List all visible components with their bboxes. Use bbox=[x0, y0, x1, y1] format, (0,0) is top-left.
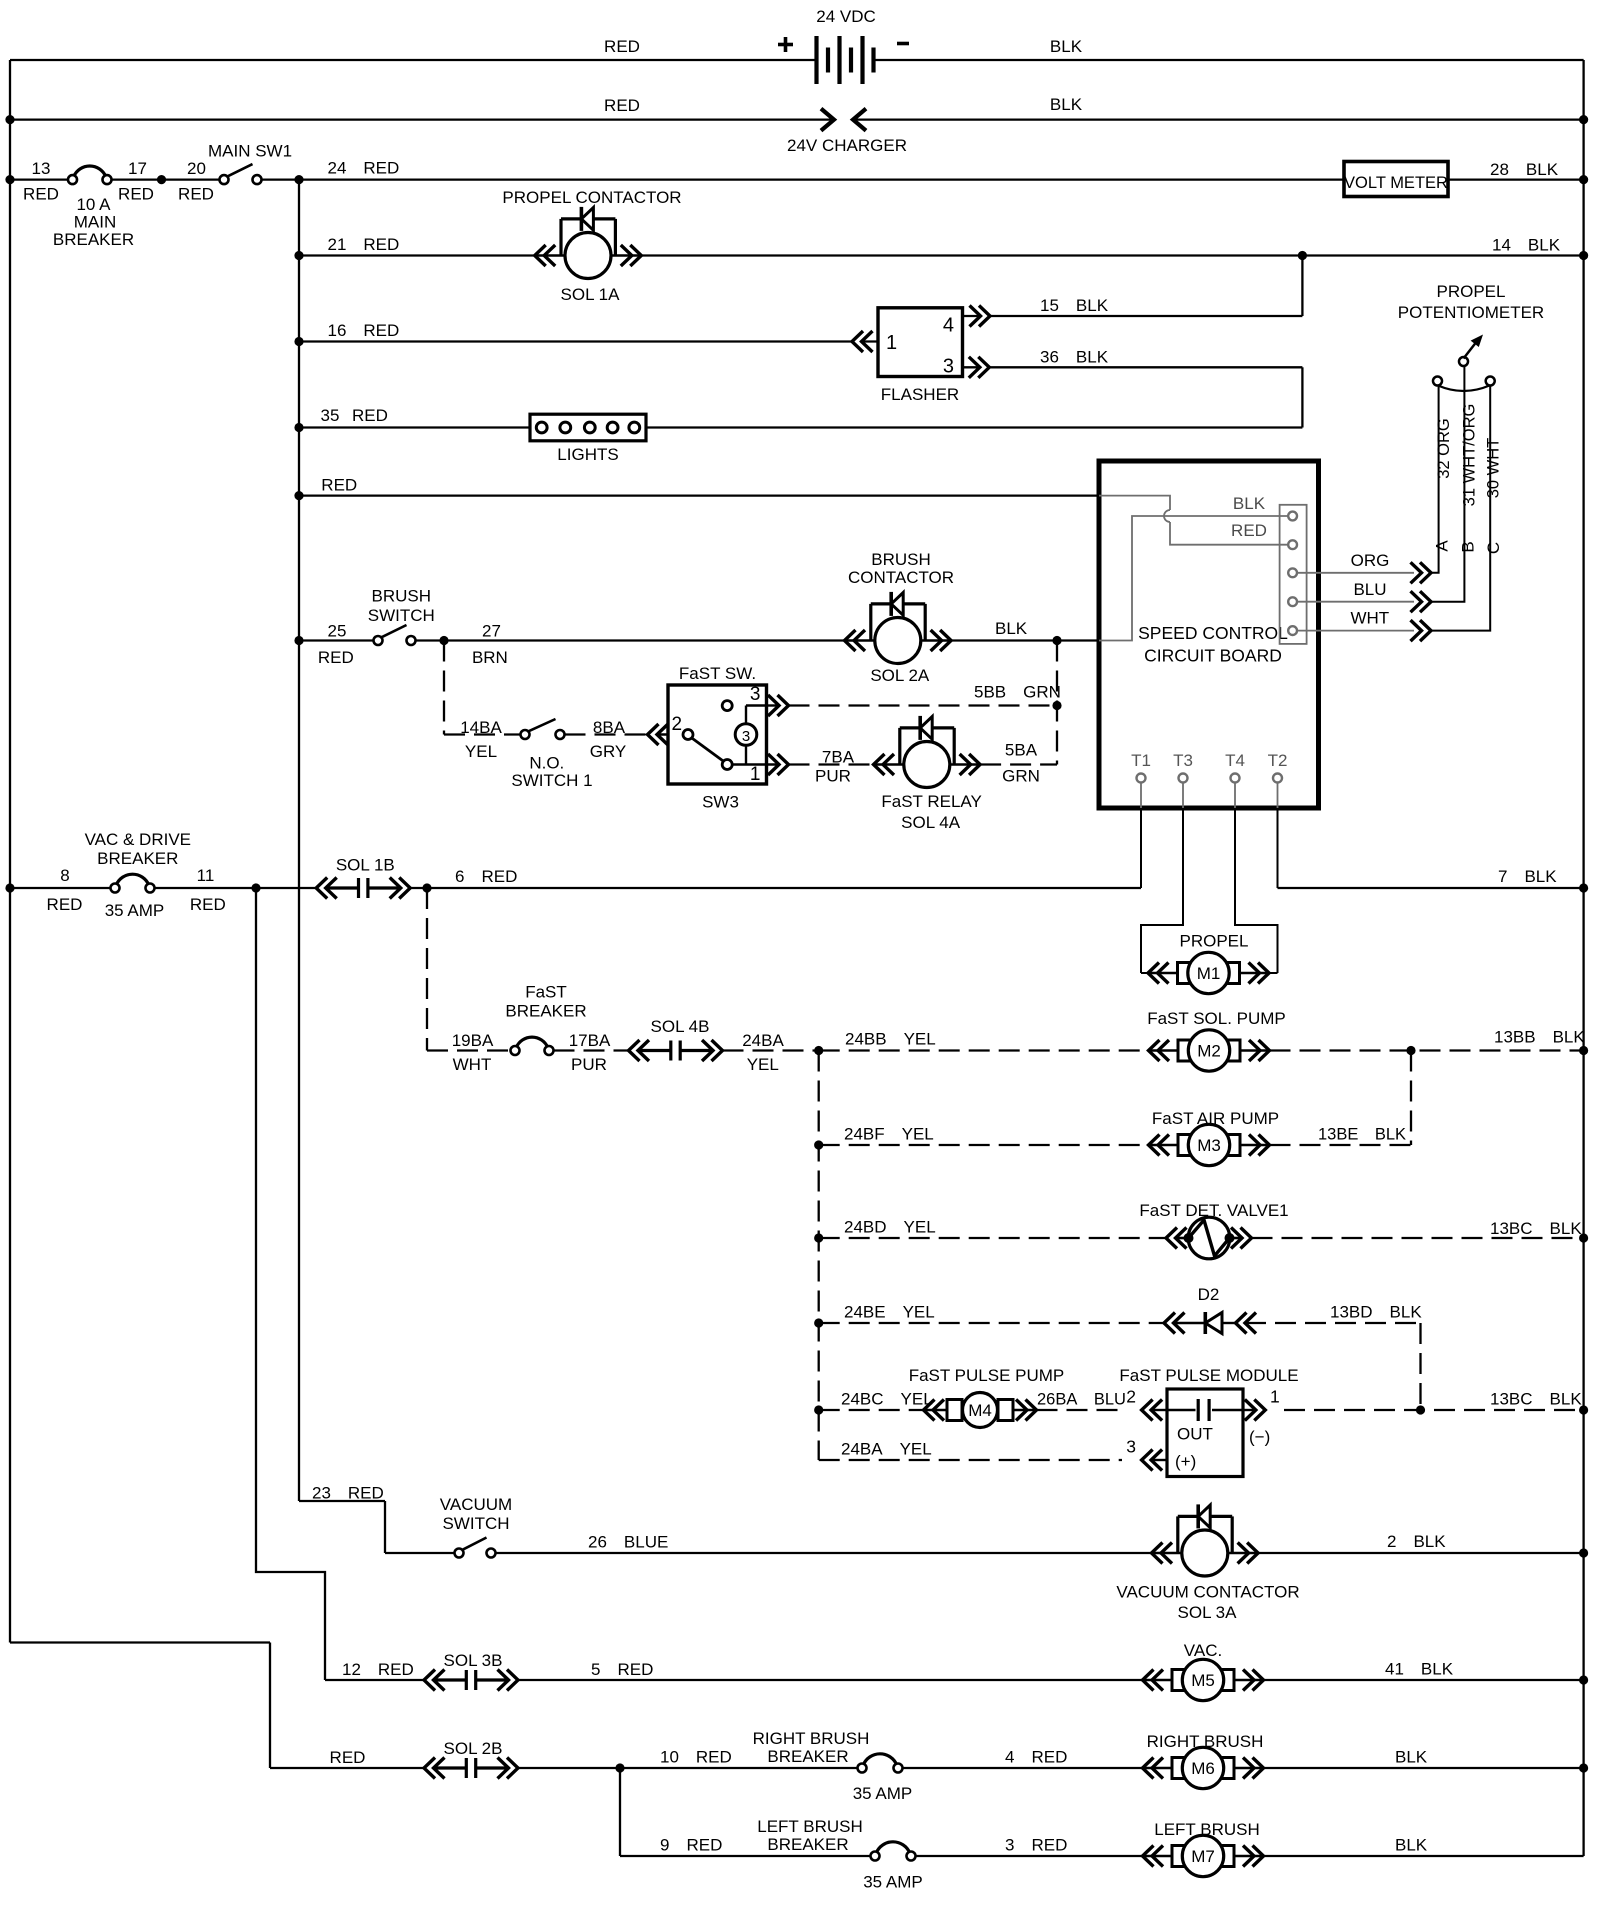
junction wire 17/20 bbox=[157, 175, 166, 184]
svg-text:2: 2 bbox=[672, 714, 683, 735]
bus wire vac drive vertical bbox=[256, 888, 325, 1680]
svg-text:35 AMP: 35 AMP bbox=[105, 901, 165, 920]
wire 15 BLK bbox=[990, 315, 1302, 317]
svg-text:BREAKER: BREAKER bbox=[767, 1835, 848, 1854]
svg-text:RED: RED bbox=[352, 406, 388, 425]
svg-text:24BA: 24BA bbox=[742, 1031, 784, 1050]
svg-text:16 RED: 16 RED bbox=[328, 321, 400, 340]
svg-text:FaST PULSE PUMP: FaST PULSE PUMP bbox=[909, 1366, 1065, 1385]
junction 24B bus bbox=[814, 1046, 823, 1055]
wire T1 drop bbox=[1140, 808, 1142, 888]
svg-text:3 RED: 3 RED bbox=[1005, 1836, 1067, 1855]
board internal BLK wire bbox=[1099, 516, 1288, 641]
contactor FaST relay SOL 4A bbox=[874, 763, 904, 766]
svg-text:26 BLUE: 26 BLUE bbox=[588, 1533, 668, 1552]
wire 21 RED bbox=[299, 254, 535, 256]
wire 14 BLK bbox=[641, 254, 1583, 256]
wire RED battery positive top bbox=[10, 59, 817, 61]
wire 24BA YEL module pin 3 bbox=[819, 1459, 1122, 1461]
FaST SW position-3 contact bbox=[722, 701, 732, 711]
svg-text:OUT: OUT bbox=[1177, 1425, 1213, 1444]
wire 24BF YEL bbox=[819, 1144, 1149, 1146]
lights bar bbox=[530, 414, 646, 441]
svg-text:RIGHT BRUSH: RIGHT BRUSH bbox=[1147, 1732, 1264, 1751]
svg-text:24 RED: 24 RED bbox=[328, 159, 400, 178]
svg-text:19BA: 19BA bbox=[452, 1031, 494, 1050]
wire BLK brush contactor return bbox=[951, 639, 1099, 641]
svg-text:15 BLK: 15 BLK bbox=[1040, 296, 1109, 315]
svg-text:M1: M1 bbox=[1197, 964, 1221, 983]
svg-text:YEL: YEL bbox=[465, 742, 497, 761]
contactor vacuum contactor SOL 3A bbox=[1152, 1552, 1182, 1555]
connector BLU bbox=[1420, 591, 1431, 612]
diode D2 bbox=[1164, 1313, 1175, 1334]
svg-text:30 WHT: 30 WHT bbox=[1485, 438, 1503, 499]
flasher pin 3 connector bbox=[963, 366, 981, 368]
svg-text:23 RED: 23 RED bbox=[312, 1484, 384, 1503]
svg-text:3: 3 bbox=[742, 728, 750, 745]
svg-text:24BB YEL: 24BB YEL bbox=[845, 1030, 936, 1049]
wire pot A 32 ORG bbox=[1431, 385, 1439, 573]
wire 26BA BLU bbox=[1037, 1409, 1123, 1411]
wire 35 RED bbox=[299, 426, 530, 428]
svg-text:28 BLK: 28 BLK bbox=[1490, 160, 1559, 179]
svg-text:2 BLK: 2 BLK bbox=[1387, 1532, 1446, 1551]
svg-text:BREAKER: BREAKER bbox=[505, 1002, 586, 1021]
svg-text:PROPEL: PROPEL bbox=[1437, 282, 1506, 301]
svg-text:RED: RED bbox=[604, 37, 640, 56]
contactor brush contactor SOL 2A bbox=[845, 639, 875, 642]
FaST SW pin 2 contact bbox=[683, 730, 693, 740]
board pin T2 bbox=[1273, 774, 1282, 783]
switch N.O. SWITCH 1 bbox=[528, 719, 555, 731]
wire 2 BLK bbox=[1258, 1552, 1584, 1554]
svg-text:T1: T1 bbox=[1131, 751, 1151, 770]
motor M6 right brush bbox=[1143, 1767, 1173, 1770]
switch MAIN SW1 bbox=[227, 164, 252, 176]
svg-text:VACUUM: VACUUM bbox=[440, 1495, 512, 1514]
board connector strip bbox=[1280, 505, 1307, 644]
breaker left brush breaker 35 AMP bbox=[876, 1842, 910, 1853]
wire 13BD drop bbox=[1419, 1323, 1421, 1410]
junction 27 BRN / 14BA bbox=[439, 636, 448, 645]
junction right rail 41 BLK bbox=[1579, 1675, 1588, 1684]
svg-text:WHT: WHT bbox=[1350, 609, 1389, 628]
junction right rail 2 BLK bbox=[1579, 1548, 1588, 1557]
svg-text:CIRCUIT BOARD: CIRCUIT BOARD bbox=[1144, 646, 1282, 666]
connector WHT bbox=[1420, 620, 1431, 641]
wire 5BA GRN bbox=[980, 763, 1057, 765]
svg-text:3: 3 bbox=[943, 356, 954, 378]
svg-text:FaST SW.: FaST SW. bbox=[679, 664, 756, 683]
svg-text:RED: RED bbox=[190, 895, 226, 914]
svg-text:C: C bbox=[1484, 542, 1503, 554]
svg-text:5BB GRN: 5BB GRN bbox=[974, 683, 1061, 702]
svg-text:VAC.: VAC. bbox=[1184, 1641, 1222, 1660]
junction 5BB GRN bbox=[1052, 701, 1061, 710]
svg-text:YEL: YEL bbox=[747, 1055, 779, 1074]
wire 36 BLK drop to lights return bbox=[1301, 367, 1303, 427]
svg-text:BRUSH: BRUSH bbox=[871, 550, 931, 569]
breaker FaST breaker bbox=[516, 1037, 548, 1047]
solenoid valve FaST det. valve1 bbox=[1166, 1228, 1177, 1249]
svg-text:8: 8 bbox=[60, 866, 69, 885]
svg-text:41 BLK: 41 BLK bbox=[1385, 1660, 1454, 1679]
flasher connector pin 1 bbox=[852, 331, 863, 352]
junction right rail 13BC bbox=[1579, 1233, 1588, 1242]
FaST SW pin 1 contact bbox=[722, 760, 732, 770]
svg-text:14 BLK: 14 BLK bbox=[1492, 236, 1561, 255]
module pin 1 connector bbox=[1243, 1409, 1256, 1411]
svg-text:GRY: GRY bbox=[590, 742, 627, 761]
contact SOL 1B bbox=[316, 878, 327, 899]
board WHT wire bbox=[1297, 630, 1414, 632]
wire 14BA YEL bbox=[444, 733, 521, 735]
junction right rail M6 bbox=[1579, 1763, 1588, 1772]
connector ORG bbox=[1420, 562, 1431, 583]
svg-text:FaST AIR PUMP: FaST AIR PUMP bbox=[1152, 1109, 1279, 1128]
motor M5 vacuum bbox=[1143, 1679, 1173, 1682]
wire 27 BRN bbox=[416, 639, 845, 641]
motor M4 FaST pulse pump bbox=[924, 1409, 948, 1412]
wire BLK charger line bbox=[854, 118, 1584, 120]
svg-text:1: 1 bbox=[886, 332, 897, 354]
contact SOL 2B bbox=[424, 1758, 435, 1779]
svg-text:SOL 3B: SOL 3B bbox=[444, 1651, 503, 1670]
wire 7BA PUR bbox=[789, 763, 874, 765]
wire 10 RED bbox=[518, 1767, 858, 1769]
wire 19BA WHT drop bbox=[426, 888, 428, 1051]
svg-text:SOL 1A: SOL 1A bbox=[561, 285, 621, 304]
breaker vac and drive breaker 35 AMP bbox=[116, 874, 149, 885]
wire 24BE YEL bbox=[819, 1322, 1164, 1324]
svg-text:(+): (+) bbox=[1175, 1452, 1196, 1471]
svg-text:T2: T2 bbox=[1268, 751, 1288, 770]
svg-text:7 BLK: 7 BLK bbox=[1498, 867, 1557, 886]
svg-text:SOL 3A: SOL 3A bbox=[1178, 1603, 1238, 1622]
board ORG wire bbox=[1297, 572, 1414, 574]
svg-text:FaST RELAY: FaST RELAY bbox=[881, 792, 981, 811]
svg-text:POTENTIOMETER: POTENTIOMETER bbox=[1398, 303, 1544, 322]
wire 24BC YEL bbox=[819, 1409, 924, 1411]
wire 24BD YEL bbox=[819, 1237, 1166, 1239]
board pin T1 bbox=[1137, 774, 1146, 783]
wire 12 RED bbox=[325, 1679, 424, 1681]
wire RED brush feed bbox=[270, 1767, 424, 1769]
svg-text:M7: M7 bbox=[1191, 1847, 1215, 1866]
board pin T3 bbox=[1179, 774, 1188, 783]
svg-text:24BD YEL: 24BD YEL bbox=[844, 1218, 936, 1237]
svg-text:32 ORG: 32 ORG bbox=[1435, 418, 1453, 479]
svg-text:A: A bbox=[1433, 540, 1452, 552]
svg-text:SW3: SW3 bbox=[702, 793, 739, 812]
junction right rail 13BC module bbox=[1579, 1405, 1588, 1414]
svg-text:BRN: BRN bbox=[472, 648, 508, 667]
wire 13BD BLK bbox=[1245, 1322, 1421, 1324]
wire 24BB YEL bbox=[819, 1049, 1149, 1051]
svg-text:24BC YEL: 24BC YEL bbox=[841, 1390, 933, 1409]
board BLU wire bbox=[1297, 601, 1414, 603]
FaST SW pin 1 exit bbox=[732, 763, 779, 765]
junction node bus A top bbox=[294, 175, 303, 184]
svg-text:FaST: FaST bbox=[525, 983, 567, 1002]
battery plus terminal label bbox=[778, 43, 793, 47]
FaST switch connector pin 2 bbox=[648, 724, 659, 745]
svg-text:4 RED: 4 RED bbox=[1005, 1748, 1067, 1767]
svg-text:BRUSH: BRUSH bbox=[372, 587, 432, 606]
svg-text:M3: M3 bbox=[1197, 1136, 1221, 1155]
svg-text:13: 13 bbox=[32, 159, 51, 178]
svg-text:RED: RED bbox=[318, 648, 354, 667]
svg-text:MAIN SW1: MAIN SW1 bbox=[208, 142, 292, 161]
svg-text:BLK: BLK bbox=[1395, 1748, 1428, 1767]
svg-text:21 RED: 21 RED bbox=[328, 235, 400, 254]
svg-text:13BC BLK: 13BC BLK bbox=[1490, 1219, 1582, 1238]
right power rail BLK bbox=[1582, 60, 1584, 1856]
svg-text:1: 1 bbox=[750, 764, 761, 785]
svg-text:RED: RED bbox=[23, 185, 59, 204]
wire 36 BLK bbox=[989, 366, 1302, 368]
svg-text:LEFT BRUSH: LEFT BRUSH bbox=[1154, 1820, 1260, 1839]
svg-text:FaST DET. VALVE1: FaST DET. VALVE1 bbox=[1139, 1201, 1288, 1220]
svg-text:13BB BLK: 13BB BLK bbox=[1494, 1028, 1585, 1047]
wire RED speed-board feed bbox=[299, 494, 1099, 496]
svg-text:VOLT METER: VOLT METER bbox=[1344, 174, 1448, 192]
svg-text:RED: RED bbox=[178, 185, 214, 204]
svg-text:RED: RED bbox=[47, 895, 83, 914]
left power rail bbox=[9, 60, 11, 1643]
svg-text:BLK: BLK bbox=[1050, 37, 1083, 56]
svg-text:BREAKER: BREAKER bbox=[53, 230, 134, 249]
svg-text:T4: T4 bbox=[1225, 751, 1245, 770]
svg-text:SWITCH: SWITCH bbox=[368, 606, 435, 625]
wire 25 RED bbox=[299, 639, 374, 641]
svg-text:7BA: 7BA bbox=[822, 748, 855, 767]
wire 24 RED bbox=[262, 178, 1345, 180]
svg-text:VACUUM CONTACTOR: VACUUM CONTACTOR bbox=[1116, 1583, 1299, 1602]
junction 13BB / 13BE riser bbox=[1406, 1046, 1415, 1055]
svg-text:3: 3 bbox=[750, 684, 761, 705]
wire 5 RED bbox=[518, 1679, 1143, 1681]
junction right rail 13BB bbox=[1579, 1046, 1588, 1055]
wire BLK left brush bbox=[1264, 1855, 1584, 1857]
svg-text:MAIN: MAIN bbox=[74, 213, 117, 232]
svg-text:36 BLK: 36 BLK bbox=[1040, 348, 1109, 367]
wire 13BB BLK bbox=[1270, 1049, 1584, 1051]
svg-text:4: 4 bbox=[943, 315, 954, 337]
svg-text:BLK: BLK bbox=[1395, 1836, 1428, 1855]
wire 24BA YEL bbox=[723, 1049, 819, 1051]
switch FaST SW. SW3 bbox=[668, 685, 767, 784]
svg-text:BLK: BLK bbox=[1233, 494, 1266, 513]
battery B1 24 VDC bbox=[814, 36, 818, 84]
svg-text:RED: RED bbox=[604, 96, 640, 115]
svg-text:SOL 2A: SOL 2A bbox=[870, 666, 930, 685]
svg-text:1: 1 bbox=[1270, 1387, 1280, 1407]
wire BLK battery negative top bbox=[874, 59, 1584, 61]
wire BLK right brush bbox=[1264, 1767, 1584, 1769]
FaST SW pin 3 exit bbox=[746, 704, 767, 706]
junction left rail charger bbox=[5, 115, 14, 124]
svg-text:FaST PULSE MODULE: FaST PULSE MODULE bbox=[1119, 1366, 1298, 1385]
svg-text:13BC BLK: 13BC BLK bbox=[1490, 1390, 1582, 1409]
svg-text:M5: M5 bbox=[1191, 1671, 1215, 1690]
contact SOL 3B bbox=[424, 1670, 435, 1691]
wire 13 RED bbox=[10, 178, 68, 180]
svg-text:RED: RED bbox=[321, 476, 357, 495]
wire 14BA YEL drop bbox=[443, 641, 445, 735]
motor M3 FaST air pump bbox=[1149, 1144, 1179, 1147]
svg-text:20: 20 bbox=[187, 159, 206, 178]
junction right rail 14 BLK bbox=[1579, 251, 1588, 260]
bus wire 24B vertical bbox=[818, 1051, 820, 1461]
svg-text:LIGHTS: LIGHTS bbox=[557, 445, 618, 464]
svg-text:BLK: BLK bbox=[1050, 95, 1083, 114]
board internal RED wire bbox=[1099, 496, 1170, 510]
wire 13BE BLK bbox=[1270, 1144, 1412, 1146]
svg-text:6 RED: 6 RED bbox=[455, 867, 517, 886]
svg-text:FaST SOL. PUMP: FaST SOL. PUMP bbox=[1147, 1009, 1286, 1028]
svg-text:10 A: 10 A bbox=[76, 195, 111, 214]
svg-text:3: 3 bbox=[1126, 1437, 1136, 1457]
svg-text:8BA: 8BA bbox=[593, 718, 626, 737]
svg-text:11: 11 bbox=[197, 866, 215, 885]
svg-text:LEFT BRUSH: LEFT BRUSH bbox=[757, 1817, 863, 1836]
svg-text:N.O.: N.O. bbox=[529, 754, 564, 773]
wire 8BA GRY bbox=[565, 733, 648, 735]
contactor propel contactor SOL 1A bbox=[535, 254, 565, 257]
junction brush branch bbox=[615, 1763, 624, 1772]
svg-text:BREAKER: BREAKER bbox=[767, 1747, 848, 1766]
wire 6 RED bbox=[410, 887, 1141, 889]
svg-text:2: 2 bbox=[1126, 1387, 1136, 1407]
switch vacuum switch bbox=[462, 1538, 486, 1550]
svg-text:26BA BLU: 26BA BLU bbox=[1037, 1391, 1126, 1409]
wire 13BE riser bbox=[1410, 1051, 1412, 1146]
svg-text:5BA: 5BA bbox=[1005, 741, 1038, 760]
motor M2 FaST sol. pump bbox=[1149, 1049, 1179, 1052]
svg-text:RED: RED bbox=[1231, 521, 1267, 540]
motor M7 left brush bbox=[1143, 1855, 1173, 1858]
wire T2 drop bbox=[1277, 808, 1279, 888]
board pin T4 bbox=[1231, 774, 1240, 783]
junction right rail charger bbox=[1579, 115, 1588, 124]
breaker right brush breaker 35 AMP bbox=[863, 1754, 897, 1765]
wire 3 RED bbox=[916, 1855, 1143, 1857]
svg-text:RED: RED bbox=[118, 185, 154, 204]
svg-text:GRN: GRN bbox=[1002, 767, 1040, 786]
svg-text:SPEED CONTROL: SPEED CONTROL bbox=[1138, 623, 1288, 643]
junction 13BD/13BC bbox=[1416, 1405, 1425, 1414]
potentiometer propel potentiometer bbox=[1438, 386, 1490, 392]
wire 13BC BLK module output bbox=[1284, 1409, 1584, 1411]
switch brush switch bbox=[381, 625, 406, 637]
wire RED charger line bbox=[10, 118, 833, 120]
svg-text:VAC & DRIVE: VAC & DRIVE bbox=[85, 830, 191, 849]
wire 19BA WHT bbox=[427, 1049, 511, 1051]
svg-text:SWITCH: SWITCH bbox=[442, 1514, 509, 1533]
junction right rail 7 BLK bbox=[1579, 883, 1588, 892]
wire 17BA PUR bbox=[554, 1049, 629, 1051]
wire 16 RED bbox=[299, 340, 852, 342]
svg-text:31 WHT/ORG: 31 WHT/ORG bbox=[1461, 404, 1479, 507]
svg-text:27: 27 bbox=[482, 622, 501, 641]
svg-text:RIGHT BRUSH: RIGHT BRUSH bbox=[753, 1729, 870, 1748]
breaker 10A main breaker bbox=[74, 166, 106, 177]
svg-text:BREAKER: BREAKER bbox=[97, 849, 178, 868]
svg-text:9 RED: 9 RED bbox=[660, 1836, 722, 1855]
svg-text:24BE YEL: 24BE YEL bbox=[844, 1303, 935, 1322]
battery minus terminal label bbox=[897, 42, 909, 46]
svg-text:M4: M4 bbox=[968, 1401, 992, 1420]
svg-text:14BA: 14BA bbox=[460, 718, 502, 737]
svg-text:D2: D2 bbox=[1198, 1285, 1220, 1304]
svg-text:PUR: PUR bbox=[571, 1055, 607, 1074]
wire 8 RED bbox=[10, 887, 111, 889]
wire lights return bbox=[646, 426, 1302, 428]
FaST SW rotary position 3 indicator bbox=[735, 724, 757, 746]
wire pot B 31 WHT/ORG bbox=[1431, 366, 1464, 602]
svg-text:35 AMP: 35 AMP bbox=[863, 1873, 923, 1892]
junction bus B bbox=[251, 883, 260, 892]
svg-text:SOL 4A: SOL 4A bbox=[901, 813, 961, 832]
junction 6 RED / FaST feed bbox=[422, 883, 431, 892]
svg-text:24BF YEL: 24BF YEL bbox=[844, 1125, 934, 1144]
wire 41 BLK bbox=[1264, 1679, 1584, 1681]
svg-text:PUR: PUR bbox=[815, 767, 851, 786]
wire BLK/5BB/5BA riser bbox=[1056, 641, 1058, 765]
svg-text:5 RED: 5 RED bbox=[591, 1660, 653, 1679]
svg-text:24V CHARGER: 24V CHARGER bbox=[787, 136, 907, 155]
svg-text:12 RED: 12 RED bbox=[342, 1660, 414, 1679]
wire 15 BLK riser bbox=[1301, 256, 1303, 317]
volt meter bbox=[1344, 162, 1448, 197]
flasher box bbox=[878, 308, 963, 377]
svg-text:13BD BLK: 13BD BLK bbox=[1330, 1303, 1422, 1322]
svg-text:RED: RED bbox=[330, 1748, 366, 1767]
svg-text:17BA: 17BA bbox=[569, 1031, 611, 1050]
svg-text:SOL 2B: SOL 2B bbox=[444, 1739, 503, 1758]
connector 24V charger bbox=[821, 109, 834, 131]
wire 13BC BLK bbox=[1252, 1237, 1584, 1239]
wire 5BB GRN bbox=[789, 704, 1058, 706]
wire 9 RED drop bbox=[619, 1768, 621, 1856]
speed control circuit board bbox=[1099, 461, 1319, 808]
junction right rail 28 BLK bbox=[1579, 175, 1588, 184]
wire T2 to 7 BLK bbox=[1278, 887, 1584, 889]
motor M1 propel bbox=[1148, 972, 1178, 975]
wire 28 BLK bbox=[1448, 178, 1584, 180]
svg-text:SWITCH 1: SWITCH 1 bbox=[511, 771, 592, 790]
bus wire vertical from MAIN SW1 bbox=[298, 180, 300, 1501]
svg-text:35 AMP: 35 AMP bbox=[853, 1784, 913, 1803]
svg-text:24 VDC: 24 VDC bbox=[816, 7, 876, 26]
svg-text:SOL 1B: SOL 1B bbox=[336, 856, 395, 875]
wire T4 drop bbox=[1235, 808, 1278, 973]
svg-text:10 RED: 10 RED bbox=[660, 1748, 732, 1767]
svg-text:B: B bbox=[1459, 541, 1478, 552]
svg-text:13BE BLK: 13BE BLK bbox=[1318, 1126, 1406, 1144]
wire 17 RED bbox=[112, 178, 220, 180]
wire 11 RED bbox=[155, 887, 317, 889]
svg-text:FLASHER: FLASHER bbox=[881, 385, 959, 404]
svg-text:PROPEL CONTACTOR: PROPEL CONTACTOR bbox=[502, 188, 681, 207]
svg-text:PROPEL: PROPEL bbox=[1180, 932, 1249, 951]
svg-text:BLK: BLK bbox=[995, 619, 1028, 638]
svg-text:SOL 4B: SOL 4B bbox=[651, 1017, 710, 1036]
svg-text:M2: M2 bbox=[1197, 1042, 1221, 1061]
svg-text:ORG: ORG bbox=[1351, 551, 1390, 570]
